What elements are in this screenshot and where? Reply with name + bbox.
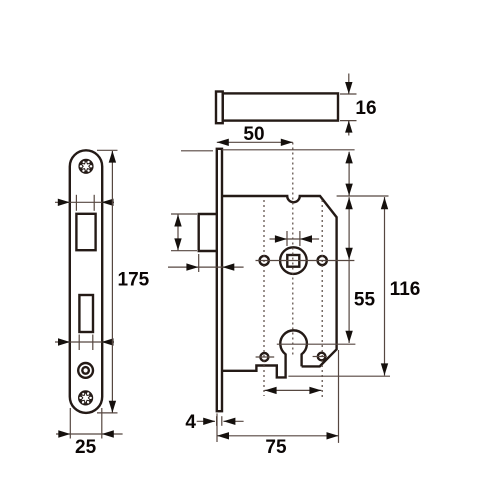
16 dimension bottom extension line bbox=[340, 120, 357, 122]
deadbolt top view body rectangle bbox=[223, 93, 338, 120]
latch bolt edge view bbox=[199, 214, 217, 251]
svg-text:116: 116 bbox=[390, 279, 421, 300]
svg-text:25: 25 bbox=[75, 437, 97, 458]
175 dimension line bbox=[111, 151, 113, 413]
upper gap top arrow bbox=[345, 151, 352, 163]
lower left screw hole bbox=[260, 353, 268, 361]
4 left tick bbox=[216, 416, 218, 426]
latch projection dimension line bbox=[168, 266, 244, 268]
116 bottom arrow bbox=[381, 363, 388, 375]
75 left arrow bbox=[217, 432, 229, 439]
svg-text:50: 50 bbox=[243, 124, 264, 145]
faceplate edge view bbox=[217, 149, 222, 411]
square width left tick bbox=[286, 231, 288, 246]
svg-text:75: 75 bbox=[265, 437, 287, 458]
latch width right tick bbox=[93, 195, 95, 211]
4 dimension left line bbox=[197, 420, 215, 422]
latch height dimension line bbox=[177, 215, 179, 251]
spindle square hole bbox=[287, 255, 299, 267]
faceplate top right extension line bbox=[222, 149, 355, 151]
spindle center arrow bbox=[345, 248, 352, 260]
25 left arrow bbox=[58, 430, 70, 437]
deadbolt cutout rectangle bbox=[79, 295, 93, 332]
bottom torx screw star bbox=[80, 393, 91, 404]
55 bottom arrow bbox=[345, 331, 352, 343]
16 bottom arrow bbox=[345, 121, 352, 133]
116 top arrow bbox=[381, 197, 388, 209]
vertical centerline right screws bbox=[321, 200, 323, 398]
latch cutout width dimension line bbox=[55, 201, 114, 203]
55 dimension line bbox=[348, 260, 350, 343]
latch width left arrow bbox=[58, 199, 70, 206]
latch width left tick bbox=[75, 195, 77, 211]
square width left arrow bbox=[275, 235, 287, 242]
deadbolt width left tick bbox=[78, 335, 80, 351]
50 dimension line bbox=[217, 141, 293, 143]
square width right tick bbox=[299, 231, 301, 246]
175 dimension bottom extension line bbox=[97, 412, 118, 414]
116 bottom extension line bbox=[288, 375, 390, 377]
lower left screw hole cross line bbox=[256, 356, 275, 358]
case-top arrow bbox=[345, 197, 352, 209]
case top extension line bbox=[337, 195, 389, 197]
screw spacing dimension line bbox=[265, 389, 322, 391]
75 dimension right extension line bbox=[338, 350, 340, 443]
svg-text:55: 55 bbox=[354, 289, 376, 310]
175 bottom arrow bbox=[109, 401, 116, 413]
latch height top extension line bbox=[171, 213, 197, 215]
top torx screw star bbox=[81, 161, 92, 172]
16 dimension upper tail line bbox=[348, 74, 350, 95]
116 dimension line bbox=[384, 197, 386, 376]
horizontal centerline through spindle bbox=[256, 260, 355, 262]
deadbolt top view cap rectangle bbox=[216, 92, 223, 124]
lower right screw hole cross line bbox=[313, 356, 327, 358]
latch height top arrow bbox=[174, 215, 181, 227]
4 left arrow bbox=[203, 418, 215, 425]
screw spacing right arrow bbox=[309, 387, 321, 394]
spindle follower circle bbox=[280, 247, 307, 274]
50 right arrow bbox=[281, 139, 293, 146]
25 dimension line bbox=[56, 433, 123, 435]
square width right arrow bbox=[300, 235, 312, 242]
latch height bottom extension line bbox=[171, 250, 197, 252]
4 right arrow bbox=[223, 418, 235, 425]
deadbolt width right tick bbox=[92, 335, 94, 351]
deadbolt width right arrow bbox=[102, 338, 114, 345]
upper gap bottom arrow bbox=[345, 184, 352, 196]
25 dimension left extension line bbox=[69, 408, 71, 439]
16 dimension lower tail line bbox=[348, 121, 350, 136]
lock case outline bbox=[222, 196, 337, 366]
screw spacing left arrow bbox=[265, 387, 277, 394]
latch projection tick bbox=[198, 254, 200, 272]
bottom torx screw circle bbox=[79, 392, 92, 405]
75 right arrow bbox=[327, 432, 339, 439]
75 dimension left extension line bbox=[216, 413, 218, 442]
16 dimension top extension line bbox=[340, 93, 357, 95]
50 left arrow bbox=[217, 139, 229, 146]
upper right screw hole bbox=[318, 256, 327, 265]
latch cutout rectangle bbox=[76, 214, 95, 250]
cylinder ring outer circle bbox=[78, 363, 93, 378]
4 dimension right line bbox=[223, 420, 243, 422]
vertical centerline middle bbox=[292, 143, 294, 358]
4 right tick bbox=[221, 416, 223, 426]
faceplate top left extension line bbox=[181, 150, 213, 152]
horizontal centerline through keyhole bbox=[277, 343, 356, 345]
keyhole profile bbox=[222, 330, 307, 377]
spindle square width dimension line bbox=[270, 238, 320, 240]
latch width right arrow bbox=[102, 199, 114, 206]
svg-text:175: 175 bbox=[118, 269, 150, 290]
latch height bottom arrow bbox=[174, 238, 181, 250]
cylinder ring inner circle bbox=[82, 367, 89, 374]
75 dimension line bbox=[217, 435, 339, 437]
latch projection left arrow bbox=[186, 263, 198, 270]
175 dimension top extension line bbox=[97, 149, 118, 151]
25 dimension right extension line bbox=[101, 408, 103, 439]
deadbolt cutout width dimension line bbox=[55, 341, 114, 343]
25 right arrow bbox=[102, 430, 114, 437]
top torx screw circle bbox=[80, 160, 93, 173]
svg-text:16: 16 bbox=[355, 98, 376, 119]
svg-text:4: 4 bbox=[185, 412, 196, 433]
vertical centerline left screws bbox=[263, 200, 265, 396]
175 top arrow bbox=[109, 151, 116, 163]
case-top to spindle dimension line bbox=[348, 197, 350, 260]
upper left screw hole bbox=[260, 256, 269, 265]
latch projection right arrow bbox=[222, 263, 234, 270]
16 top arrow bbox=[345, 82, 352, 94]
faceplate front view outline bbox=[70, 150, 102, 413]
faceplate-top to case-top dimension line bbox=[348, 152, 350, 196]
deadbolt width left arrow bbox=[58, 338, 70, 345]
lower right screw hole bbox=[318, 353, 326, 361]
